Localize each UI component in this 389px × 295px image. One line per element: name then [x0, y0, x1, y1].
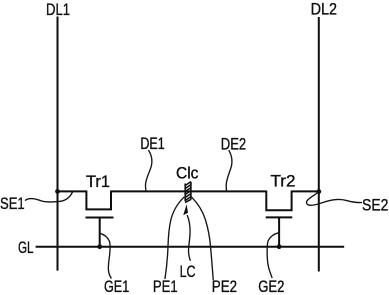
leader line DE1: [146, 151, 152, 191]
svg-text:PE1: PE1: [153, 277, 178, 295]
svg-text:DL1: DL1: [46, 0, 70, 19]
svg-text:DL2: DL2: [311, 0, 337, 19]
node: junction dot DL1/source: [55, 189, 60, 194]
data line DL2 (vertical wire): [318, 17, 320, 272]
svg-text:GE2: GE2: [258, 277, 284, 295]
svg-text:SE1: SE1: [0, 194, 25, 213]
arrowhead of LC leader pointing at Clc: [183, 204, 188, 215]
node: junction dot Tr1 gate/GL: [97, 244, 102, 249]
leader line GE1: [100, 233, 111, 278]
svg-text:DE2: DE2: [221, 135, 246, 154]
svg-text:Tr2: Tr2: [271, 172, 296, 191]
svg-text:LC: LC: [180, 262, 196, 281]
wire: Tr2 gate to GL: [278, 217, 280, 246]
transistor Tr2 gate electrode bar: [266, 216, 293, 218]
svg-text:Clc: Clc: [176, 164, 199, 183]
wire: Tr2 source electrode to DL2: [292, 190, 319, 192]
leader line SE2: [306, 192, 361, 206]
node: junction dot DL2/source: [316, 189, 321, 194]
wire: DL1 to Tr1 source electrode: [58, 190, 87, 192]
leader line GE2: [267, 233, 278, 278]
leader line PE1: [165, 197, 184, 278]
node: junction dot Tr2 gate/GL: [277, 244, 282, 249]
transistor Tr2 source/drain electrode channel (U shape): [266, 191, 291, 211]
svg-text:GE1: GE1: [104, 277, 129, 295]
transistor Tr1 source/drain electrode channel (U shape): [86, 191, 111, 210]
svg-text:SE2: SE2: [362, 196, 388, 215]
leader line SE1: [26, 192, 73, 202]
leader line DE2: [226, 151, 232, 191]
svg-text:PE2: PE2: [212, 277, 237, 295]
capacitor Clc: hatched liquid-crystal element crossing the wire: [185, 182, 191, 203]
svg-text:DE1: DE1: [140, 134, 164, 153]
data line DL1 (vertical wire): [57, 17, 59, 271]
transistor Tr1 gate electrode bar: [86, 217, 114, 219]
leader line LC: [187, 216, 190, 261]
wire: Tr1 drain to Tr2 drain (pixel electrode run through Clc): [111, 190, 266, 192]
gate line GL (horizontal wire): [36, 246, 345, 248]
svg-text:GL: GL: [18, 238, 34, 257]
leader line PE2: [191, 197, 213, 280]
wire: Tr1 gate to GL: [99, 218, 101, 247]
svg-text:Tr1: Tr1: [86, 172, 110, 191]
